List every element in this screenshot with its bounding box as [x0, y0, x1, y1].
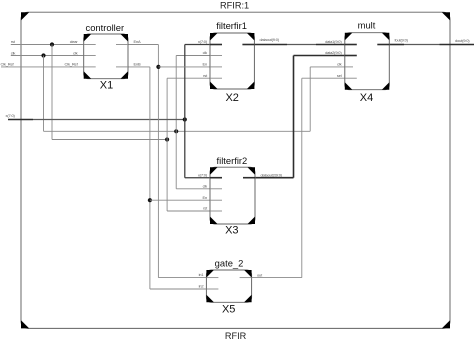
wire rst column to filters — [166, 78, 168, 211]
pin stub fout — [377, 44, 389, 46]
wire rst to filterfir1 — [167, 77, 210, 79]
outer corner mark top-left — [21, 12, 29, 20]
svg-text:EnB: EnB — [134, 62, 142, 67]
svg-text:dout(9:0): dout(9:0) — [455, 38, 470, 43]
pin stub x(7:0) — [210, 44, 222, 46]
block mult X4 — [345, 33, 390, 90]
pin stub in1 — [206, 277, 218, 279]
bus dataout2 from filterfir2 — [255, 177, 294, 179]
junction EnB to En2 — [148, 198, 152, 202]
svg-text:clk: clk — [337, 62, 342, 67]
junction EnA to En — [156, 65, 160, 69]
wire clk column down — [43, 56, 45, 132]
bus fout from mult — [389, 44, 404, 46]
wire Clk_Ref to controller — [1, 66, 84, 68]
svg-text:dataout2(9:0): dataout2(9:0) — [261, 172, 283, 177]
pin stub clk m — [345, 66, 353, 68]
wire clk to filterfir1 — [176, 55, 210, 57]
svg-text:Clk_Ref: Clk_Ref — [1, 62, 15, 67]
corner marks X1 — [84, 34, 128, 79]
svg-text:X4: X4 — [360, 92, 373, 104]
bus x to filterfir1 — [185, 44, 210, 46]
svg-text:data1(9:0): data1(9:0) — [325, 39, 342, 44]
wire sel column up — [301, 78, 303, 277]
svg-text:En: En — [202, 195, 207, 200]
svg-text:filterfir2: filterfir2 — [217, 155, 248, 166]
wire clk to controller — [11, 55, 84, 57]
pin stub clear — [84, 44, 96, 46]
port x(7:0) stub — [8, 119, 33, 121]
net dataout middle — [287, 44, 316, 46]
pin stub data1 — [345, 44, 357, 46]
wire clk column to filters — [175, 56, 177, 189]
bus dataout filterfir1 to mult — [254, 44, 287, 46]
corner marks X4 — [345, 33, 390, 90]
corner marks X3 — [210, 167, 255, 224]
svg-text:fout(9:0): fout(9:0) — [395, 38, 409, 43]
pin stub clk f1 — [210, 55, 222, 57]
wire EnA to gate in1 — [158, 277, 206, 279]
wire rst distribution row — [52, 139, 167, 141]
bus x to filterfir2 — [185, 177, 210, 179]
wire EnB to gate in2 — [150, 288, 207, 290]
svg-text:Clk_Ref: Clk_Ref — [65, 62, 79, 67]
svg-text:controller: controller — [86, 22, 125, 33]
svg-text:data2(9:0): data2(9:0) — [325, 50, 342, 55]
pin stub EnA — [116, 44, 128, 46]
block filterfir2 X3 — [210, 167, 255, 224]
pin stub dataout — [242, 44, 254, 46]
svg-text:mult: mult — [358, 20, 376, 31]
pin stub rst f2 — [210, 210, 222, 212]
wire rst to controller clear — [11, 44, 84, 46]
net fout middle — [404, 44, 440, 46]
junction rst branch — [50, 42, 54, 46]
svg-text:X1: X1 — [100, 80, 113, 92]
wire En to filterfir1 — [158, 66, 210, 68]
svg-text:X5: X5 — [222, 304, 235, 316]
svg-text:RFIR: RFIR — [225, 331, 247, 340]
corner marks X2 — [210, 33, 254, 89]
wire clk to mult — [310, 66, 345, 68]
pin stub dataout2 — [243, 177, 255, 179]
svg-text:gate_2: gate_2 — [215, 257, 244, 268]
pin stub data2 — [345, 55, 357, 57]
wire EnA column — [157, 45, 159, 278]
pin stub clk — [84, 55, 96, 57]
svg-text:dataout(9:0): dataout(9:0) — [260, 37, 280, 42]
svg-text:clk: clk — [203, 50, 208, 55]
pin stub out — [240, 277, 252, 279]
pin stub EnB — [116, 66, 128, 68]
wire En to filterfir2 — [150, 199, 210, 201]
pin stub sel — [345, 77, 357, 79]
wire EnB from controller — [128, 66, 150, 68]
svg-text:clk: clk — [11, 50, 16, 55]
wire EnB column — [149, 67, 151, 289]
wire sel to mult — [302, 77, 345, 79]
block filterfir1 X2 — [210, 33, 254, 89]
wire clk to filterfir2 — [176, 188, 210, 190]
pin stub Clk_Ref — [84, 66, 96, 68]
svg-text:clk: clk — [203, 183, 208, 188]
svg-text:x(7:0): x(7:0) — [198, 39, 208, 44]
wire x bus row — [33, 119, 185, 121]
svg-text:clk: clk — [73, 50, 78, 55]
junction rst distribution — [165, 137, 169, 141]
pin stub clk f2 — [210, 188, 222, 190]
port dout(9:0) stub — [440, 44, 474, 46]
wire gate out — [252, 277, 302, 279]
bus dataout2 column up — [293, 56, 295, 178]
wire clk column up to mult — [309, 67, 311, 131]
svg-text:clear: clear — [70, 39, 79, 44]
junction clk branch — [41, 53, 45, 57]
pin stub in2 — [206, 288, 218, 290]
svg-text:filterfir1: filterfir1 — [216, 20, 247, 31]
corner marks X5 — [206, 270, 251, 302]
bus data2 into mult — [294, 55, 345, 57]
svg-text:x(7:0): x(7:0) — [198, 172, 208, 177]
pin stub En f1 — [210, 66, 222, 68]
outer corner mark top-right — [442, 12, 450, 20]
svg-text:x(7:0): x(7:0) — [6, 113, 16, 118]
junction x bus — [183, 117, 187, 121]
wire clk distribution row — [44, 130, 311, 132]
svg-text:En: En — [202, 62, 207, 67]
block controller X1 — [84, 34, 128, 79]
svg-text:X2: X2 — [225, 92, 238, 104]
svg-text:RFIR:1: RFIR:1 — [220, 0, 249, 10]
block gate_2 X5 — [206, 270, 251, 302]
wire rst to filterfir2 — [167, 210, 210, 212]
pin stub rst f1 — [210, 77, 222, 79]
wire EnA from controller — [128, 44, 158, 46]
outer corner mark bottom-right — [442, 320, 450, 328]
svg-text:EnA: EnA — [134, 39, 142, 44]
pin stub x2(7:0) — [210, 177, 222, 179]
wire rst column down — [51, 45, 53, 140]
bus x column — [184, 45, 186, 178]
outer corner mark bottom-left — [21, 320, 29, 328]
junction clk distribution — [174, 129, 178, 133]
bus data1 stub outside — [316, 44, 345, 46]
svg-text:sel: sel — [337, 73, 342, 78]
svg-text:X3: X3 — [225, 225, 238, 237]
pin stub En f2 — [210, 199, 222, 201]
